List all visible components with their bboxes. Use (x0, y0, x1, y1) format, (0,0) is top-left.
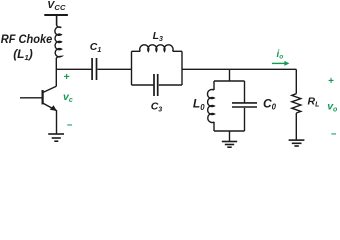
wire tank bottom right (159, 84, 182, 86)
svg-text:−: − (331, 129, 337, 140)
wire tank right edge (181, 51, 183, 85)
current io arrow (272, 61, 290, 66)
wire junction stub down (229, 69, 231, 81)
ground (tank) (222, 142, 237, 148)
wire tank top left (132, 50, 141, 52)
wire node to C1 (56, 68, 91, 70)
wire tank bottom left (132, 84, 154, 86)
wire VCC stem (56, 16, 58, 25)
wire tank output to RL (182, 68, 296, 70)
svg-text:RF Choke: RF Choke (1, 34, 53, 46)
resistor RL (292, 94, 301, 113)
svg-text:L0: L0 (193, 97, 205, 112)
transistor Q1 base bar (41, 90, 43, 104)
transistor Q1 emitter arrowhead (50, 105, 57, 111)
wire L0 bottom lead (213, 122, 215, 131)
transistor Q1 base lead (20, 97, 43, 99)
svg-text:L3: L3 (153, 30, 163, 43)
wire L0 top lead (213, 81, 215, 90)
power VCC bar (44, 14, 68, 16)
wire collector rail (55, 58, 57, 86)
ground (emitter) (48, 134, 64, 141)
wire C0 bottom lead (244, 108, 246, 131)
capacitor C0 (232, 103, 257, 107)
svg-text:+: + (328, 76, 334, 87)
svg-text:(L1): (L1) (13, 47, 33, 62)
capacitor C1 (92, 58, 96, 80)
svg-text:RL: RL (308, 95, 320, 108)
wire L0C0 tank top edge (214, 80, 245, 82)
svg-text:vo: vo (327, 100, 338, 113)
wire RL drop (295, 69, 297, 93)
wire tank top right (173, 50, 182, 52)
transistor Q1 emitter lead (43, 103, 57, 134)
inductor L1 RF choke coil (55, 25, 62, 59)
wire tank to ground stub (229, 131, 231, 141)
svg-text:−: − (67, 120, 73, 131)
wire tank left edge (131, 51, 133, 85)
ground (RL) (289, 140, 305, 146)
wire C1 to tank (98, 68, 132, 70)
capacitor C3 (154, 74, 158, 96)
svg-text:vc: vc (63, 91, 73, 104)
wire RL to ground (295, 113, 297, 140)
svg-text:C0: C0 (263, 96, 277, 111)
inductor L0 (207, 90, 214, 123)
wire L0C0 tank bottom edge (214, 130, 245, 132)
svg-text:C3: C3 (151, 101, 163, 114)
svg-text:VCC: VCC (47, 0, 66, 12)
svg-text:C1: C1 (90, 41, 102, 54)
svg-text:io: io (277, 49, 284, 61)
svg-text:+: + (63, 71, 69, 83)
wire C0 top lead (244, 81, 246, 103)
transistor Q1 collector lead (43, 86, 57, 92)
inductor L3 (140, 45, 173, 51)
